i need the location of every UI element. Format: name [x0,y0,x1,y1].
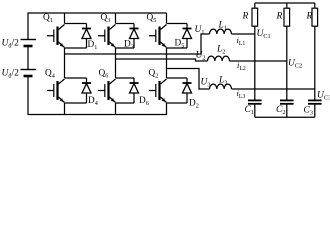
wire: leg 3 lower emitter junction [167,102,188,104]
svg-text:D2: D2 [189,99,199,110]
wire: leg 1 upper emitter junction [65,47,87,49]
inductor L1 [210,29,232,34]
wire: leg 2 upper collector junction [116,23,135,25]
svg-text:iL1: iL1 [237,35,246,47]
wire: leg 1 bottom drop to bus [64,103,66,115]
diode D4 [86,78,88,83]
wire: L2 to load rail 2 [230,60,287,62]
transistor Q3 [107,27,109,46]
wire: left DC rail middle segment [27,46,29,70]
wire: phase B output from leg 2 [116,59,208,61]
svg-text:Q3: Q3 [101,13,111,24]
wire: leg 3 midpoint rail [166,48,168,78]
wire: rail 3 top stub [314,3,316,8]
svg-text:R: R [306,12,313,22]
wire: phase A output from leg 1 [65,34,210,54]
svg-text:D3: D3 [124,40,134,51]
svg-text:L1: L1 [218,21,227,32]
inductor L2 [208,56,230,61]
wire: leg 2 upper emitter junction [116,47,135,49]
svg-text:iL3: iL3 [237,88,246,100]
wire: rail 2 vertical [286,26,288,100]
transistor Q5 [158,27,160,46]
voltage source Ud/2 (upper battery) [21,39,37,41]
svg-text:Q2: Q2 [149,69,159,80]
wire: leg 3 upper emitter junction [167,47,188,49]
svg-text:C3: C3 [304,106,313,117]
wire: top DC bus [28,12,167,14]
wire: leg 1 lower emitter junction [65,102,87,104]
wire: leg 3 lower collector junction [167,77,188,79]
svg-text:UC3: UC3 [317,91,330,102]
svg-text:Ud/2: Ud/2 [2,69,20,80]
resistor R (load 3) [312,8,318,26]
wire: left DC rail top segment [27,12,29,39]
wire: leg 1 upper collector junction [65,23,87,25]
wire: rail 2 top stub [286,3,288,8]
wire: leg 1 midpoint rail [64,48,66,78]
wire: load top bus [255,2,315,4]
inductor L3 [210,84,232,89]
wire: phase C output from leg 3 [167,69,210,90]
wire: leg 1 top drop from bus [64,13,66,24]
svg-text:iL2: iL2 [237,60,246,72]
svg-text:D6: D6 [139,96,149,107]
capacitor C3 [308,99,322,101]
svg-text:D5: D5 [175,39,185,50]
capacitor C2 [280,99,294,101]
svg-text:L3: L3 [218,76,227,87]
wire: rail 1 top stub [254,3,256,8]
transistor Q1 [56,27,58,46]
svg-text:Q1: Q1 [43,13,53,24]
svg-text:U1: U1 [195,25,205,36]
transistor Q4 [56,81,58,100]
svg-text:R: R [276,12,283,22]
svg-text:C2: C2 [276,105,285,116]
wire: leg 3 top drop from bus [166,13,168,24]
capacitor C1 [248,99,262,101]
diode D1 [86,24,88,29]
svg-text:C1: C1 [245,105,254,116]
svg-text:UC1: UC1 [257,29,271,40]
wire: bottom DC bus [28,114,167,116]
wire: leg 3 bottom drop to bus [166,103,168,115]
wire: rail 1 vertical [254,26,256,100]
wire: leg 2 bottom drop to bus [115,103,117,115]
wire: leg 1 lower collector junction [65,77,87,79]
wire: L3 to load rail 3 [232,88,315,90]
svg-text:L2: L2 [216,45,225,56]
svg-text:Q5: Q5 [147,13,157,24]
wire: leg 2 lower collector junction [116,77,135,79]
transistor Q2 [158,81,160,100]
wire: leg 2 midpoint rail [115,48,117,78]
wire: leg 2 lower emitter junction [116,102,135,104]
wire: left DC rail bottom segment [27,76,29,115]
svg-text:Q6: Q6 [99,69,109,80]
svg-text:U2: U2 [196,51,206,62]
wire: load bottom bus [255,116,315,118]
transistor Q6 [107,81,109,100]
diode D3 [133,24,135,29]
wire: L1 to load rail 1 [232,33,255,35]
svg-text:D1: D1 [88,40,98,51]
wire: leg 2 top drop from bus [115,13,117,24]
resistor R (load 2) [284,8,290,26]
wire: rail 3 vertical [314,26,316,100]
resistor R (load 1) [252,8,258,26]
voltage source Ud/2 (lower battery) [21,69,37,71]
svg-text:D4: D4 [88,96,98,107]
diode D2 [186,78,188,83]
svg-text:Q4: Q4 [45,69,55,80]
wire: leg 3 upper collector junction [167,23,188,25]
svg-text:U3: U3 [201,78,211,89]
svg-text:R: R [242,12,249,22]
diode D5 [186,24,188,29]
svg-text:UC2: UC2 [288,59,302,70]
svg-text:Ud/2: Ud/2 [2,39,20,50]
diode D6 [133,78,135,83]
